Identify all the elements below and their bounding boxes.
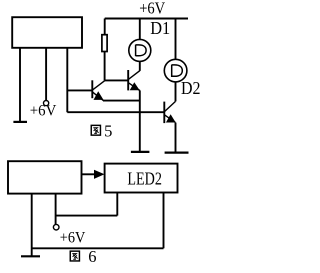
wire rail to D2: [175, 19, 177, 60]
arrowhead: [94, 170, 105, 179]
ground G4: [21, 255, 40, 257]
wire to Q3 base: [67, 111, 164, 113]
wire to Q1 base: [67, 89, 92, 91]
svg-text:6: 6: [88, 247, 96, 266]
label fig5: [91, 122, 112, 141]
wire Q3 emitter to ground: [175, 123, 177, 153]
wire D1 to Q2 collector: [139, 61, 141, 71]
ground G1: [13, 121, 27, 123]
resistor R1: [102, 35, 107, 52]
label fig6: [70, 247, 96, 266]
svg-text:5: 5: [104, 122, 112, 141]
svg-text:D1: D1: [150, 18, 170, 38]
display box LED2: [105, 164, 178, 193]
svg-text:+6V: +6V: [60, 229, 86, 246]
wire D2 to Q3 collector: [175, 82, 177, 101]
wire LED2 box bottom left lead: [116, 193, 118, 216]
wire node A to Q2 base: [105, 79, 129, 81]
svg-text:+6V: +6V: [139, 0, 166, 18]
wire box U2 right lead: [55, 194, 57, 225]
wire rail to D1: [139, 19, 141, 40]
wire resistor to node A: [104, 52, 106, 81]
transistor Q1: [92, 80, 104, 100]
wire box U1 left lead: [19, 48, 21, 122]
+6V rail: [105, 18, 188, 20]
wire rail to resistor: [104, 19, 106, 35]
wire Q2 emitter to ground: [139, 90, 141, 151]
wire bottom return: [32, 247, 164, 249]
wire Q1 emitter: [103, 100, 140, 102]
wire to +6V node: [56, 215, 118, 217]
wire box U1 middle lead: [45, 48, 47, 101]
wire LED2 box bottom right lead: [163, 193, 165, 249]
ground G3: [165, 152, 189, 154]
ground G2: [131, 151, 150, 153]
transistor Q3: [164, 101, 175, 123]
transistor Q2: [128, 70, 140, 91]
svg-text:+6V: +6V: [30, 103, 57, 120]
svg-text:D2: D2: [181, 78, 201, 98]
wire box U1 right lead: [66, 48, 68, 112]
LED D2: [164, 59, 187, 82]
LED D1: [129, 39, 151, 61]
control box U1: [12, 17, 82, 48]
svg-text:LED2: LED2: [127, 169, 161, 189]
terminal +6V (fig5): [44, 101, 49, 106]
wire signal arrow: [82, 173, 96, 175]
sensor box U2: [8, 161, 82, 193]
terminal +6V (fig6): [53, 224, 59, 230]
wire box U2 left lead to ground: [31, 194, 33, 256]
